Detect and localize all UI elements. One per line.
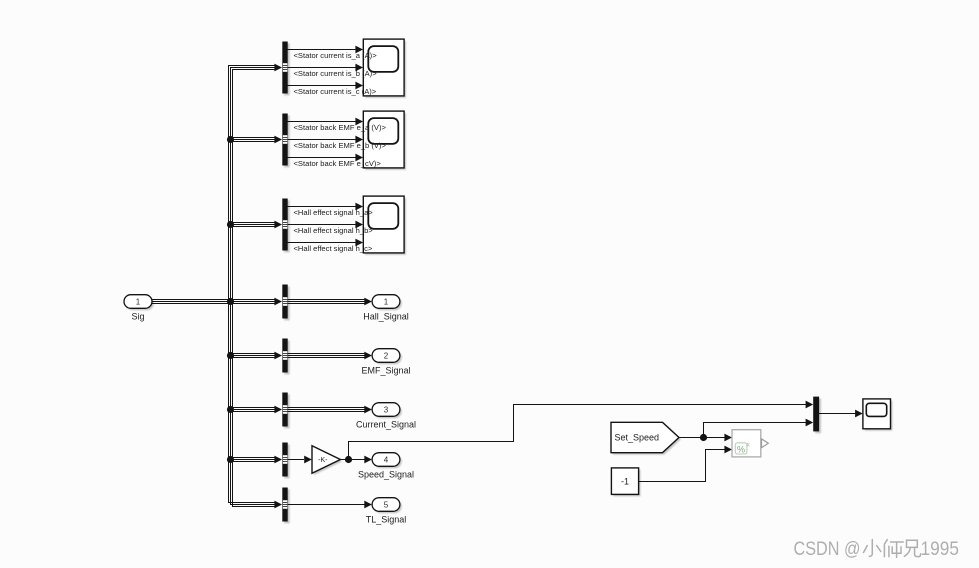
svg-text:1: 1 — [384, 297, 389, 306]
svg-text:5: 5 — [384, 500, 389, 509]
svg-text:-K-: -K- — [318, 457, 328, 464]
svg-text:-1: -1 — [621, 477, 629, 487]
svg-text:CSDN @: CSDN @ — [794, 539, 861, 560]
svg-text:Current_Signal: Current_Signal — [356, 420, 416, 430]
svg-text:EMF_Signal: EMF_Signal — [361, 366, 410, 376]
svg-text:<Stator current is_a (A)>: <Stator current is_a (A)> — [294, 51, 378, 60]
svg-text:<Hall effect signal h_c>: <Hall effect signal h_c> — [294, 244, 373, 253]
svg-text:1995: 1995 — [921, 539, 960, 560]
svg-text:Set_Speed: Set_Speed — [615, 433, 660, 443]
svg-text:2: 2 — [384, 351, 389, 360]
svg-text:1: 1 — [136, 297, 141, 306]
svg-text:<Hall effect signal h_b>: <Hall effect signal h_b> — [294, 226, 374, 235]
svg-text:Hall_Signal: Hall_Signal — [363, 312, 409, 322]
svg-text:x: x — [747, 443, 750, 449]
svg-text:TL_Signal: TL_Signal — [366, 515, 407, 525]
svg-text:<Stator back EMF e_cV)>: <Stator back EMF e_cV)> — [294, 159, 382, 168]
svg-text:<Stator current is_c (A)>: <Stator current is_c (A)> — [294, 87, 377, 96]
svg-text:Speed_Signal: Speed_Signal — [358, 470, 414, 480]
svg-text:<Stator current is_b (A)>: <Stator current is_b (A)> — [294, 69, 378, 78]
svg-text:<Stator back EMF e_a (V)>: <Stator back EMF e_a (V)> — [294, 123, 387, 132]
svg-text:<Stator back EMF e_b (V)>: <Stator back EMF e_b (V)> — [294, 141, 387, 150]
svg-text:<Hall effect signal h_a>: <Hall effect signal h_a> — [294, 208, 374, 217]
svg-text:Sig: Sig — [131, 312, 144, 322]
svg-text:3: 3 — [384, 405, 389, 414]
svg-text:4: 4 — [384, 455, 389, 464]
svg-text:%: % — [737, 444, 745, 454]
